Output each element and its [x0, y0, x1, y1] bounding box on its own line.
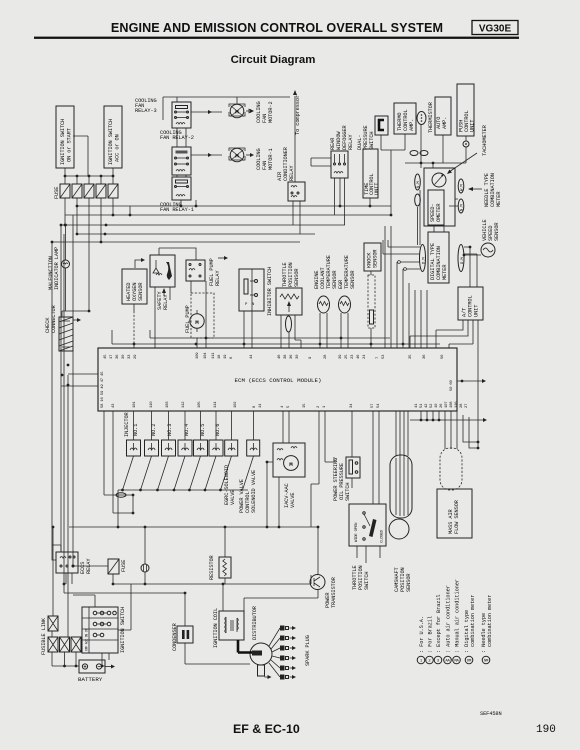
fuel pump relay label [209, 258, 221, 286]
junction dots on fuse feed [64, 175, 67, 178]
svg-text:43: 43 [112, 403, 116, 408]
throttle position switch label [352, 565, 370, 590]
wire: mass air flow sensor to ECM [445, 411, 478, 449]
svg-text:METER: METER [442, 264, 448, 280]
svg-text:DISTRIBUTOR: DISTRIBUTOR [252, 605, 258, 640]
svg-text:: Auto air conditioner: : Auto air conditioner [446, 585, 452, 653]
wire: battery bus [52, 631, 105, 666]
injector NO.3 [162, 424, 176, 456]
svg-text:D.M: D.M [461, 257, 465, 264]
malfunction indicator lamp [62, 260, 70, 268]
svg-text:6: 6 [230, 356, 234, 359]
EGR temperature sensor [339, 296, 351, 313]
rear window defogger relay [331, 151, 348, 178]
svg-text:RELAY: RELAY [215, 270, 221, 286]
svg-text:111: 111 [212, 352, 216, 359]
svg-text:19: 19 [224, 354, 228, 359]
svg-text:114: 114 [214, 401, 218, 408]
mass air flow sensor connector [440, 448, 462, 490]
ignition switch (ON or START) [56, 106, 74, 168]
svg-text:FUSIBLE LINK: FUSIBLE LINK [41, 617, 47, 655]
wire: meter cluster interconnects [418, 190, 482, 255]
fusible link FL3 [60, 637, 70, 652]
thermo control amp [394, 103, 416, 134]
svg-text:IGNITION COIL: IGNITION COIL [213, 608, 219, 648]
svg-text:N: N [252, 303, 255, 307]
wire: defogger relay to bus A [311, 158, 345, 225]
svg-text:46: 46 [278, 354, 282, 359]
wire: throttle position switch to ECM [357, 411, 380, 563]
svg-text:IGNITION SWITCH: IGNITION SWITCH [108, 119, 114, 165]
wire: malfunction lamp connections [65, 225, 67, 311]
engine coolant temperature sensor [318, 296, 330, 313]
wire: injector collector bus [118, 490, 248, 527]
legend entry 7: Needle type combination meter [481, 595, 493, 664]
svg-text:SENSOR: SENSOR [494, 222, 500, 241]
svg-text:N.M: N.M [461, 204, 465, 211]
svg-text:14: 14 [259, 403, 263, 408]
air conditioner relay label [277, 146, 295, 181]
safety relay label [157, 256, 228, 310]
svg-text:52: 52 [430, 403, 434, 408]
wire: fuse outputs down [65, 198, 113, 311]
wire: IACV-AAC valve connections [267, 411, 289, 527]
svg-text:N.M: N.M [417, 181, 421, 188]
time control unit [363, 149, 380, 198]
wire: condenser branch [185, 593, 250, 664]
svg-text:54: 54 [377, 403, 381, 408]
svg-text:30: 30 [122, 354, 126, 359]
wire: resistor branch [224, 527, 226, 584]
connector oval W.M right [458, 179, 464, 193]
svg-text:36: 36 [290, 354, 294, 359]
dual-pressure switch label [357, 125, 375, 150]
svg-text:38: 38 [284, 354, 288, 359]
wire: thermistor and amps rail [405, 124, 466, 163]
svg-text:50 60: 50 60 [450, 379, 454, 391]
svg-text:ON or START: ON or START [67, 128, 73, 162]
svg-text:: For Brazil: : For Brazil [428, 616, 434, 653]
svg-text:FUEL PUMP: FUEL PUMP [185, 305, 191, 333]
svg-text:25: 25 [345, 354, 349, 359]
wire: ignition coil branch [222, 584, 224, 611]
check connector arrow [73, 318, 81, 322]
injector NO.2 [145, 424, 159, 456]
cooling fan relay-1 [172, 177, 191, 200]
svg-text:36: 36 [423, 354, 427, 359]
svg-text:17: 17 [110, 354, 114, 359]
injector NO.6 [209, 424, 223, 456]
wire: coolant temp sensor to ECM [320, 313, 327, 348]
svg-text:44: 44 [250, 354, 254, 359]
bus junction dots [76, 205, 79, 208]
auto amp [435, 97, 451, 135]
engine coolant temperature sensor label [314, 255, 338, 289]
wire: digital meter right connector to A/T unit [464, 247, 477, 287]
wire: horizontal bus B (y=215) [65, 214, 391, 216]
wire: safety relay to ECM [155, 287, 170, 348]
svg-text:MOTOR-1: MOTOR-1 [268, 148, 274, 170]
svg-text:VG30E: VG30E [479, 24, 512, 35]
tachometer label and pointer [447, 124, 488, 174]
wire: inhibitor switch to ECM [244, 269, 252, 348]
svg-text:110: 110 [150, 401, 154, 408]
dual-pressure switch [375, 116, 388, 135]
wire: relay-2 to motor-1 [191, 154, 222, 156]
svg-text:RELAY: RELAY [348, 134, 354, 150]
svg-text:57: 57 [371, 403, 375, 408]
spark plug 4 [272, 656, 296, 661]
legend entry 1: For U.S.A. [417, 616, 425, 664]
fuse F4 [96, 184, 106, 198]
wire: rail down to meter cluster [421, 163, 433, 168]
fuel pump [185, 293, 214, 338]
connector oval D.M left [420, 245, 427, 272]
wire: relay-3 to motor-2 [191, 111, 222, 113]
wire: relay-2 drop stub [129, 206, 131, 215]
power steering oil pressure switch label [333, 458, 351, 501]
fusible link FL2 [48, 637, 58, 652]
svg-text:SWITCH: SWITCH [345, 483, 351, 501]
svg-text:SEF458N: SEF458N [480, 711, 502, 717]
svg-text:FUSE: FUSE [54, 187, 60, 199]
svg-text:104: 104 [204, 352, 208, 359]
svg-text:2: 2 [317, 405, 321, 408]
EGR temperature sensor label [338, 255, 356, 289]
svg-text:RELAY-3: RELAY-3 [135, 108, 157, 114]
svg-text:SENSOR: SENSOR [406, 573, 412, 592]
cooling fan motor-2 [229, 104, 245, 118]
mass air flow sensor [437, 489, 472, 538]
svg-text:RELAY: RELAY [289, 165, 295, 181]
wire: ECM right side outputs with arrows [457, 380, 483, 382]
push control unit [457, 84, 476, 136]
arrow to cooling fan motor-2 [246, 109, 252, 113]
svg-text:NO.3: NO.3 [167, 424, 173, 436]
camshaft position sensor label [394, 567, 412, 592]
ignition switch (key switch) [82, 607, 118, 653]
svg-text:combination meter: combination meter [487, 595, 493, 647]
spark plug 6 [269, 663, 296, 680]
connector oval N.M left lower [415, 194, 421, 206]
connector circle on push control wire [463, 141, 469, 147]
svg-text:: Manual air conditioner: : Manual air conditioner [455, 579, 461, 653]
ignition coil T1 [219, 611, 244, 640]
wire: digital meter left connector feeds [383, 240, 420, 269]
legend entry 2: For Brazil [426, 616, 434, 664]
svg-text:THERMISTOR: THERMISTOR [428, 101, 434, 133]
svg-text:RELAY: RELAY [163, 294, 169, 310]
fuse F1 [60, 184, 70, 198]
svg-text:15: 15 [303, 403, 307, 408]
power transistor [310, 575, 337, 609]
ECCS relay label [80, 558, 92, 574]
svg-text:18: 18 [218, 354, 222, 359]
knock sensor element [368, 275, 375, 328]
svg-text:112: 112 [182, 401, 186, 408]
svg-text:9: 9 [309, 356, 313, 359]
svg-text:EF & EC-10: EF & EC-10 [233, 722, 300, 736]
fuse F6 [108, 559, 119, 574]
svg-text:7: 7 [376, 356, 380, 359]
svg-text:36: 36 [116, 354, 120, 359]
wire: knock sensor to ECM [370, 271, 372, 348]
svg-text:combination meter: combination meter [470, 595, 476, 647]
vehicle speed sensor [481, 243, 495, 257]
svg-text:VALVE: VALVE [230, 490, 236, 505]
svg-text:42: 42 [425, 403, 429, 408]
wire: camshaft position sensor to ECM [396, 411, 408, 457]
fuel pump relay [186, 260, 205, 281]
safety relay [150, 255, 175, 287]
wire: left long drops to ECM and lower section [52, 215, 108, 637]
wire: ECM left edge pin stubs [61, 374, 98, 386]
wire: top rail over relays to motors and compressor [163, 97, 290, 120]
distributor [238, 640, 272, 679]
rear window defogger relay label [330, 124, 354, 150]
ignition switch (ACC or ON) [104, 106, 122, 168]
svg-text:TACHOMETER: TACHOMETER [482, 124, 488, 156]
svg-text:33: 33 [128, 354, 132, 359]
injector NO.4 [178, 424, 192, 456]
throttle position sensor [276, 288, 302, 315]
wire: EGR temp sensor to ECM [341, 313, 348, 348]
air conditioner relay [288, 182, 305, 201]
svg-text:Circuit Diagram: Circuit Diagram [231, 54, 316, 66]
EGRC-solenoid valve [225, 440, 238, 456]
svg-text:ECM (ECCS CONTROL MODULE): ECM (ECCS CONTROL MODULE) [235, 377, 322, 384]
svg-text:M: M [289, 461, 293, 468]
svg-text:109: 109 [196, 352, 200, 359]
title underline rule [34, 37, 519, 39]
wire: A/C relay bottom to bus [293, 201, 300, 234]
svg-text:UNIT: UNIT [470, 120, 476, 132]
svg-text:INJECTOR: INJECTOR [124, 411, 130, 437]
svg-text:MOTOR-2: MOTOR-2 [268, 101, 274, 123]
svg-text:107: 107 [445, 401, 449, 408]
spark plug 2 [271, 636, 296, 650]
svg-text:27: 27 [465, 403, 469, 408]
svg-text:51: 51 [420, 403, 424, 408]
svg-text:4: 4 [281, 405, 285, 408]
svg-text:116: 116 [455, 401, 459, 408]
svg-text:1: 1 [323, 405, 327, 408]
wire: check connector feed [52, 242, 89, 317]
svg-text:41: 41 [415, 403, 419, 408]
svg-text:35: 35 [409, 354, 413, 359]
power valve control solenoid valve label [239, 470, 257, 513]
svg-text:105: 105 [198, 401, 202, 408]
wire: secondary bus above ECM (y=338) [150, 330, 390, 338]
svg-text:FAN RELAY-1: FAN RELAY-1 [160, 207, 194, 213]
tachometer gauge [432, 173, 446, 187]
wire: horizontal bus C (y=225) [61, 224, 345, 226]
svg-text:INDICATOR LAMP: INDICATOR LAMP [54, 247, 60, 290]
ECM bottom pin numbers [112, 401, 469, 408]
condenser C1 [177, 626, 193, 643]
fuse F5 [108, 184, 118, 198]
svg-text:UNIT: UNIT [474, 305, 480, 317]
wire: ECM pins 2,1 drop [311, 411, 334, 484]
EGRC-solenoid valve label [224, 465, 236, 505]
wire: ignition primary bus (y=584) [64, 575, 311, 593]
svg-text:To compressor: To compressor [295, 95, 301, 135]
svg-text:10: 10 [435, 403, 439, 408]
throttle position sensor label [282, 262, 300, 287]
svg-text:101: 101 [133, 401, 137, 408]
svg-text:SENSOR: SENSOR [294, 268, 300, 287]
svg-text:29: 29 [134, 354, 138, 359]
svg-text:108: 108 [450, 401, 454, 408]
to compressor arrow [293, 90, 301, 182]
wire: horizontal bus A (y=206) [77, 205, 391, 207]
ECM top pin numbers [104, 352, 445, 359]
svg-text:103: 103 [166, 401, 170, 408]
wire: fusible link top feed [51, 652, 53, 666]
wire: fuel pump relay and pump wiring [159, 248, 206, 348]
connector oval D.M right [458, 245, 465, 272]
svg-text:VALVE: VALVE [290, 493, 296, 508]
spark plug 3 [272, 646, 296, 653]
A/T control unit [458, 287, 483, 320]
wire: power steering switch to ECM [351, 411, 353, 488]
svg-text:METER: METER [496, 191, 502, 207]
svg-text:INHIBITOR SWITCH: INHIBITOR SWITCH [267, 267, 273, 316]
wire: ECM bottom pin drops to injectors [134, 411, 254, 440]
wire: time control unit to bus A [369, 198, 371, 206]
camshaft position sensor body [390, 455, 412, 518]
vehicle speed sensor label [482, 219, 500, 241]
IACV-AAC valve label [284, 483, 296, 508]
power valve control solenoid valve [247, 440, 260, 456]
cooling fan relay-3 label [135, 98, 157, 114]
cooling fan relay-3 [172, 102, 191, 128]
svg-text:26: 26 [440, 403, 444, 408]
svg-text:28: 28 [324, 354, 328, 359]
connector oval N.M right [458, 199, 464, 213]
cooling fan motor-1 label [256, 148, 274, 170]
svg-text:ENGINE AND EMISSION CONTROL OV: ENGINE AND EMISSION CONTROL OVERALL SYST… [111, 21, 443, 35]
svg-text:M: M [195, 319, 199, 326]
svg-text:5: 5 [287, 405, 291, 408]
speedometer box [428, 190, 444, 225]
svg-text:M: M [235, 153, 239, 160]
svg-text:: For U.S.A.: : For U.S.A. [419, 616, 425, 653]
fusible link FL1 [48, 616, 58, 631]
resistor R1 [219, 557, 231, 578]
wire: ECM bottom left drops [104, 411, 133, 513]
wire: ECS relay connections [52, 545, 72, 584]
ECM (ECCS control module) U1 [98, 348, 457, 411]
svg-text:23: 23 [351, 354, 355, 359]
svg-text:39: 39 [339, 354, 343, 359]
wire: throttle position sensor to ECM [281, 315, 301, 348]
spark plug 5 [271, 660, 296, 671]
spark plug 1 [269, 626, 296, 647]
wire: A/T control unit stepped drops [410, 320, 478, 448]
svg-text:46: 46 [357, 354, 361, 359]
camshaft position sensor rotor [389, 519, 409, 539]
ECCS relay [56, 552, 78, 573]
wire: meter cluster drops to ECM top pins [385, 226, 427, 348]
wire: heated oxygen sensor to ECM [133, 304, 135, 311]
svg-text:24: 24 [363, 354, 367, 359]
svg-text:BATTERY: BATTERY [78, 676, 103, 683]
needle type combination meter cluster box [424, 168, 455, 226]
fusible link FL4 [71, 637, 81, 652]
cooling fan motor-2 label [256, 101, 274, 123]
svg-text:FLOW SENSOR: FLOW SENSOR [454, 499, 460, 534]
wire: relay interconnects [177, 128, 196, 206]
check connector label [45, 304, 57, 333]
legend entry 5: Manual air conditioner [453, 579, 461, 664]
svg-text:SENSOR: SENSOR [138, 282, 144, 301]
svg-text:SWITCH: SWITCH [364, 572, 370, 590]
svg-text:SPARK PLUG: SPARK PLUG [305, 635, 311, 666]
svg-text:CLOSED: CLOSED [381, 529, 385, 543]
svg-text:28: 28 [460, 403, 464, 408]
wire: horizontal bus D (y=234) [77, 233, 315, 235]
knock sensor [364, 243, 381, 271]
svg-text:W.M: W.M [461, 184, 465, 191]
svg-text:102: 102 [234, 401, 238, 408]
check connector [59, 317, 73, 351]
svg-text:30: 30 [296, 354, 300, 359]
heated oxygen sensor arrow [135, 258, 145, 268]
wire: dual pressure switch / thermo amp connections [381, 134, 405, 215]
svg-text:D.M: D.M [423, 257, 427, 264]
fuse F3 [84, 184, 94, 198]
injector NO.1 [127, 424, 141, 456]
battery BT1 [79, 660, 115, 673]
svg-text:FUSE: FUSE [121, 560, 127, 572]
cooling fan motor-1 [229, 148, 245, 162]
svg-text:8: 8 [253, 405, 257, 408]
svg-text:M: M [235, 109, 239, 116]
svg-text:AMP.: AMP. [442, 117, 448, 129]
wire: main ground bus (y=527) [69, 526, 318, 528]
malfunction indicator lamp label [48, 247, 60, 290]
svg-text:190: 190 [536, 724, 556, 736]
svg-text:SENSOR: SENSOR [350, 270, 356, 289]
fuse F2 [72, 184, 82, 198]
svg-text:58 16 59 49 47 45: 58 16 59 49 47 45 [101, 371, 105, 408]
svg-text:OMETER: OMETER [436, 203, 442, 222]
digital type combination meter [428, 232, 449, 283]
cooling fan relay-2 [172, 147, 191, 175]
svg-text:OFF ACC ON ST: OFF ACC ON ST [85, 628, 89, 651]
cooling fan relay-1 label [160, 202, 194, 213]
wire: injector returns to collector bus [123, 456, 254, 490]
injector NO.5 [194, 424, 208, 456]
svg-text:45: 45 [104, 354, 108, 359]
heated oxygen sensor [122, 269, 147, 304]
VG30E label box [472, 21, 518, 35]
connector ovals on thermistor rail [410, 151, 418, 156]
svg-text:SOLENOID VALVE: SOLENOID VALVE [251, 470, 257, 513]
svg-text:TRANSISTOR: TRANSISTOR [331, 576, 337, 608]
svg-text:ACC or ON: ACC or ON [115, 134, 121, 162]
svg-text:: Except for Brazil: : Except for Brazil [436, 595, 442, 654]
thermistor [417, 101, 434, 133]
svg-text:56: 56 [441, 354, 445, 359]
svg-text:P: P [245, 303, 248, 307]
wire: bus above ECM top edge (y=344) [112, 330, 440, 344]
throttle position switch [349, 504, 386, 546]
svg-text:IGNITION SWITCH: IGNITION SWITCH [60, 119, 66, 165]
wire: horizontal bus E (y=242) [52, 241, 300, 243]
power steering oil pressure switch [346, 457, 360, 478]
